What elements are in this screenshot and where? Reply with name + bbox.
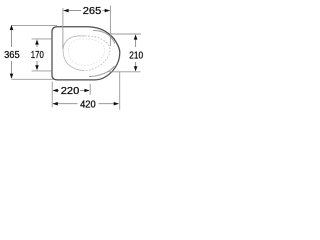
- dimension 265: extension line right: [109, 6, 111, 47]
- dimension 210: dimension line: [135, 36, 137, 47]
- svg-text:220: 220: [61, 86, 80, 97]
- dimension 265: right arrow: [105, 9, 110, 13]
- basin outer contour: [52, 27, 120, 80]
- dimension 265: left arrow: [63, 9, 68, 13]
- svg-text:210: 210: [129, 50, 143, 61]
- basin inner rim line: [93, 30, 115, 43]
- basin bottom hidden outline (inner dashed): [69, 39, 105, 65]
- dimension 210: top arrow: [134, 34, 138, 39]
- dimension 265: dimension line: [63, 10, 81, 12]
- dimension 220: left arrow: [53, 89, 58, 93]
- basin rim hidden outline (dashed right half): [84, 36, 110, 71]
- svg-text:170: 170: [31, 50, 44, 61]
- dimension 170: dimension line: [36, 41, 38, 47]
- dimension 365: top extension line: [12, 24, 58, 26]
- dimension 420: dimension line: [53, 103, 78, 105]
- dimension 210: bottom arrow: [134, 66, 138, 71]
- dimension 210: top extension line: [111, 33, 141, 35]
- dimension 210: bottom extension line: [109, 71, 141, 73]
- dimension 170: top arrow: [35, 39, 39, 44]
- dimension 420: right arrow: [114, 102, 119, 106]
- svg-text:365: 365: [4, 50, 20, 61]
- dimension 170: bottom extension line: [32, 70, 52, 72]
- dimension 420: right extension line: [119, 72, 121, 110]
- dimension 220: dimension line: [53, 90, 59, 92]
- svg-text:265: 265: [83, 6, 102, 17]
- dimension 170: top extension line: [32, 38, 52, 40]
- dimension 365: top arrow: [10, 25, 14, 30]
- dimension 220: right extension line: [89, 84, 91, 95]
- dimension 365: bottom arrow: [10, 74, 14, 79]
- dimension 220: right arrow: [84, 89, 89, 93]
- shared left extension line for 220/420: [51, 82, 53, 108]
- basin bowl hidden outline (dashed): [63, 36, 85, 71]
- svg-text:420: 420: [80, 99, 96, 110]
- dimension 420: left arrow: [53, 102, 58, 106]
- dimension 170: bottom arrow: [35, 65, 39, 70]
- dimension 365: dimension line: [11, 27, 13, 48]
- dimension 265: extension line left: [62, 8, 64, 49]
- basin inner rim line lower: [89, 66, 115, 77]
- dimension 365: bottom extension line: [12, 78, 54, 80]
